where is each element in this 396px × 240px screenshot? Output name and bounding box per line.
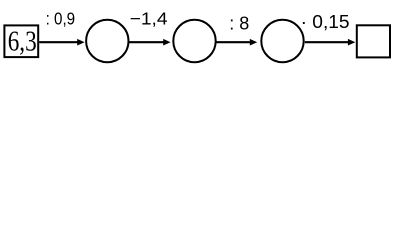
svg-text:−1,4: −1,4 xyxy=(130,8,168,28)
svg-text:: 0,9: : 0,9 xyxy=(46,8,76,28)
svg-text:6,3: 6,3 xyxy=(8,26,37,57)
svg-text:: 8: : 8 xyxy=(229,12,249,33)
svg-text:· 0,15: · 0,15 xyxy=(301,11,350,32)
